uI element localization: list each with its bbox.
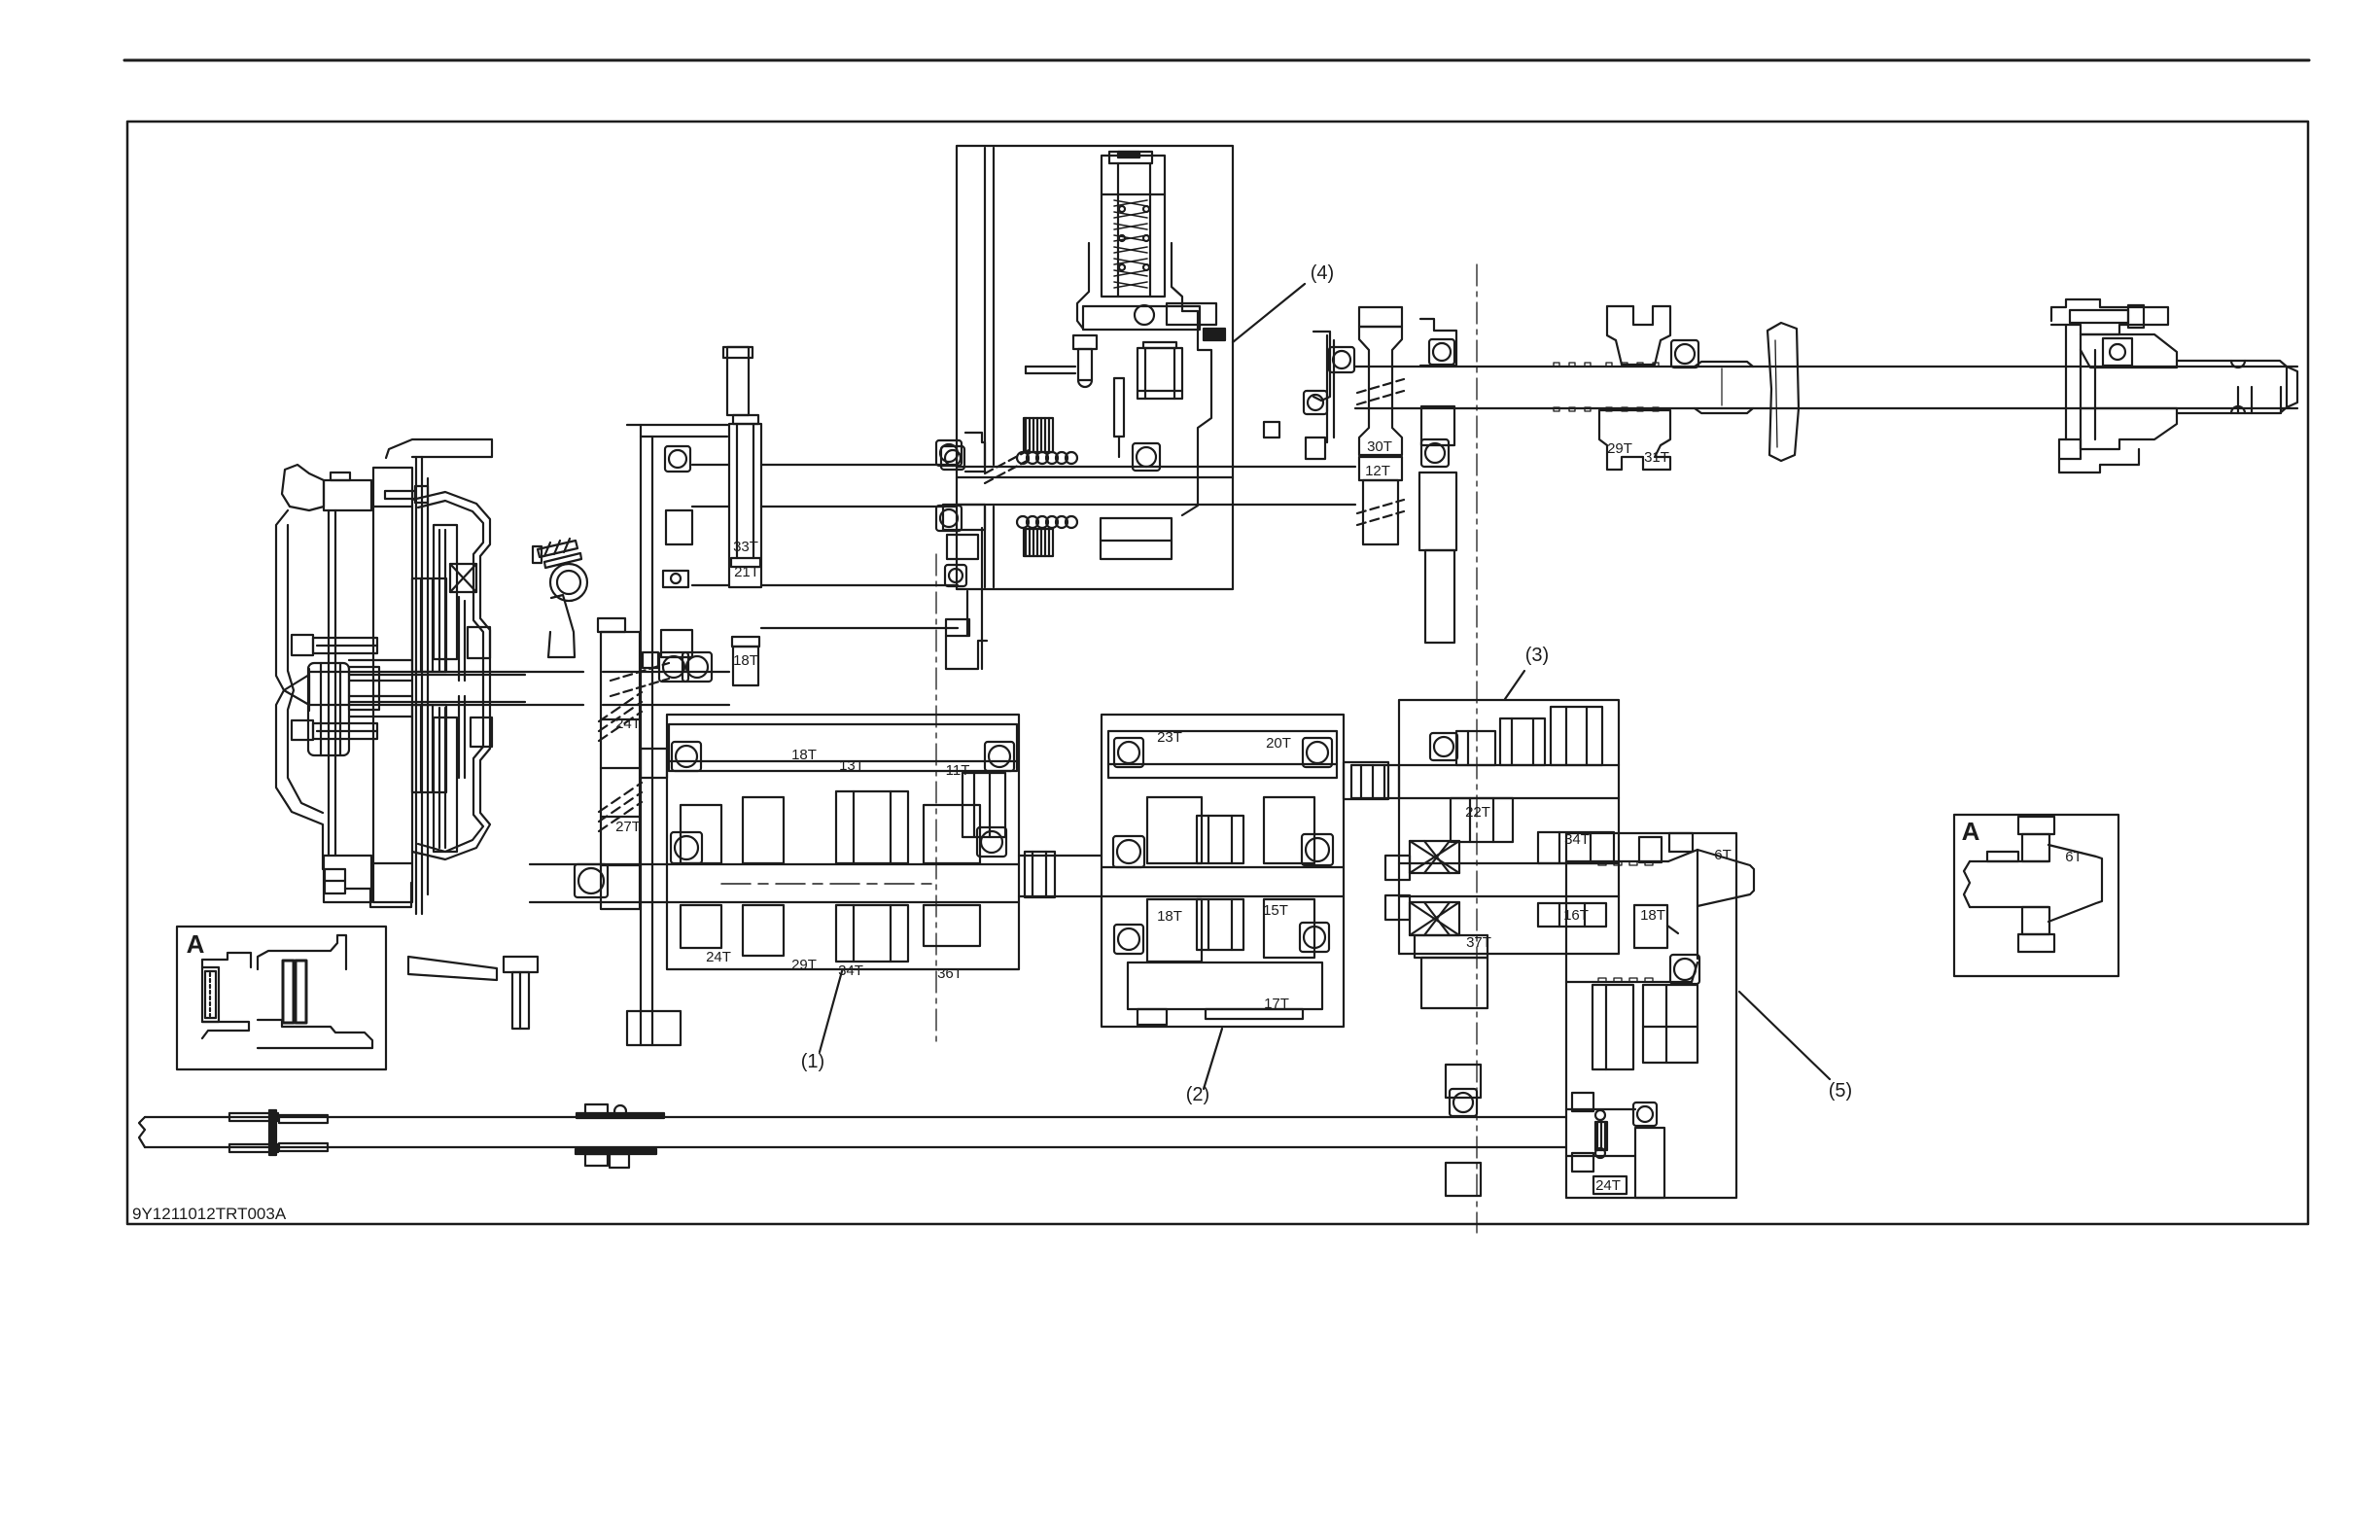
svg-text:31T: 31T: [1644, 449, 1669, 466]
shift plate left of gear: [1313, 332, 1334, 442]
bearing right of pair: [1671, 340, 1698, 367]
case top line: [627, 425, 729, 437]
box1 synchro upper: [836, 791, 908, 863]
Aleft right plate: [258, 935, 346, 969]
clutch cover: [412, 492, 490, 859]
bracket below shaft: [1419, 406, 1456, 643]
svg-text:18T: 18T: [733, 652, 758, 669]
svg-text:27T: 27T: [615, 819, 641, 835]
label (2) leader: [1204, 1029, 1222, 1089]
label (3) leader: [1505, 671, 1524, 699]
svg-text:6T: 6T: [1714, 847, 1732, 863]
centerline box1 shaft: [721, 883, 931, 885]
gear 11T pinion: [962, 773, 1005, 837]
box1 bearing mid-left: [671, 832, 702, 863]
spline dashes 12T lower: [1357, 500, 1404, 525]
Aright top blocks: [1987, 817, 2054, 861]
box1 gear l2: [743, 905, 784, 956]
gear 28T upper: [1607, 306, 1670, 365]
gear 34T body: [1538, 832, 1614, 863]
bell housing inner line: [288, 525, 323, 813]
top rule: [124, 59, 2309, 62]
box2 top gear body: [1108, 731, 1337, 778]
box3 synchro: [1500, 718, 1545, 765]
svg-text:12T: 12T: [1365, 463, 1390, 479]
svg-text:36T: 36T: [937, 965, 962, 982]
clutch friction disc: [416, 457, 428, 914]
end foot: [2059, 449, 2139, 472]
shaft sleeve upper: [1695, 362, 1753, 367]
label (5) leader: [1739, 992, 1830, 1079]
clutch hub lower: [412, 705, 446, 792]
box3 taper bearing upper: [1410, 841, 1459, 873]
diaphragm fingers: [439, 530, 465, 848]
svg-text:24T: 24T: [615, 716, 641, 732]
box3 bearing top-left: [1430, 733, 1457, 760]
gear 31T lower: [1599, 410, 1670, 470]
box2 bearing mid-left: [1113, 836, 1144, 867]
bottom shaft thick in box5: [1566, 1109, 1635, 1156]
box3 gear right: [1551, 707, 1602, 765]
svg-text:6T: 6T: [2065, 849, 2082, 865]
upper right shaft: [1233, 467, 1355, 505]
box1 coupling right: [1025, 852, 1055, 897]
input shaft band A: [692, 465, 957, 507]
svg-text:34T: 34T: [1564, 831, 1590, 848]
svg-text:18T: 18T: [791, 747, 817, 763]
svg-text:24T: 24T: [706, 949, 731, 965]
svg-text:11T: 11T: [946, 762, 970, 779]
Aleft bottom shaft: [258, 1020, 372, 1048]
label (1) leader: [820, 971, 842, 1052]
upper bearing left: [665, 446, 692, 544]
gear 16T: [1538, 903, 1606, 927]
svg-text:(1): (1): [801, 1051, 824, 1072]
bottom shaft hub: [229, 1110, 328, 1155]
box2 bearing top-left: [1114, 738, 1143, 767]
release fork arm: [548, 595, 575, 657]
input bearing row: [643, 652, 712, 682]
box4 pin: [1114, 378, 1124, 457]
box1 shaft: [667, 864, 1019, 902]
box3 top shaft: [1399, 765, 1619, 798]
box3 lower shaft: [1399, 863, 1619, 896]
label (4) leader: [1233, 284, 1305, 342]
case wall left: [627, 425, 681, 1045]
box2 bearing bot-right: [1300, 923, 1329, 952]
shaft sleeve lower: [1695, 408, 1753, 413]
svg-text:A: A: [187, 929, 205, 959]
box4 spring: [1114, 200, 1147, 288]
box4 solenoid: [1137, 342, 1182, 399]
box4 rollers lower: [1017, 516, 1077, 528]
ref box (4): [957, 146, 1233, 589]
ref box (1): [667, 715, 1019, 969]
box4 clutch pack upper: [1024, 418, 1053, 452]
box3 taper bearing lower: [1410, 902, 1459, 935]
box4 housing outline: [1182, 311, 1211, 515]
box2 bottom body: [1128, 962, 1322, 1009]
ref box (2): [1102, 715, 1344, 1027]
drain bolt: [504, 957, 538, 1029]
block left lower: [661, 630, 692, 657]
box2 gear l1: [1147, 899, 1202, 962]
svg-text:18T: 18T: [1640, 907, 1665, 924]
hanging bracket: [1420, 319, 1456, 366]
box2 feet: [1137, 1009, 1303, 1025]
gear 12T rim: [1359, 457, 1402, 544]
end bracket top: [2051, 299, 2168, 334]
box4 valve outer right: [1172, 243, 1182, 311]
hub cylinder: [349, 660, 412, 717]
box3 in coupling: [1351, 765, 1399, 798]
box4 lever arm: [1026, 367, 1075, 373]
box1 gear u2: [743, 797, 784, 863]
bevel pinion body: [1566, 850, 1754, 982]
bearing left of 30T: [1329, 347, 1354, 372]
box1 gear u1: [681, 805, 721, 863]
flywheel disc: [373, 468, 412, 902]
Aright cone: [2048, 845, 2102, 922]
gear 18T input: [732, 637, 759, 685]
svg-text:15T: 15T: [1263, 902, 1288, 919]
Aleft bottom bar: [202, 1022, 249, 1038]
box2 bearing bot-left: [1114, 925, 1143, 954]
svg-text:29T: 29T: [1607, 440, 1632, 457]
box1 bearing mid-right: [977, 827, 1006, 857]
box1 gear l1: [681, 905, 721, 948]
svg-text:A: A: [1962, 817, 1980, 846]
bearing mid right wall: [943, 505, 985, 586]
spline dashes input: [611, 663, 669, 696]
svg-text:29T: 29T: [791, 957, 817, 973]
svg-text:37T: 37T: [1466, 934, 1491, 951]
box1 gear u3: [924, 805, 980, 863]
svg-text:13T: 13T: [839, 757, 864, 774]
svg-text:34T: 34T: [838, 962, 863, 979]
gear 22T body: [1451, 798, 1513, 842]
case foot below box4: [946, 528, 987, 669]
box2 out coupling: [1344, 762, 1388, 799]
box1 out shaft: [1019, 856, 1102, 896]
box3 gear mid: [1456, 731, 1495, 765]
bottom shaft coupling: [576, 1104, 664, 1168]
pressure plate lower: [434, 717, 457, 852]
flywheel top block: [324, 472, 371, 510]
box4 shaft: [957, 467, 1233, 505]
centerline vertical x1519: [1476, 264, 1478, 1233]
end set screw: [2103, 338, 2132, 366]
Aleft ring pack: [202, 967, 219, 1022]
svg-text:30T: 30T: [1367, 438, 1392, 455]
box5 gear plates: [1592, 985, 1697, 1069]
gear 24T/27T stack: [598, 618, 640, 909]
ref box (3): [1399, 700, 1619, 954]
svg-text:(4): (4): [1311, 262, 1334, 284]
box5 lower bearing: [1633, 1102, 1657, 1126]
flywheel web: [329, 510, 335, 856]
release fork ring: [550, 564, 587, 601]
spline hatch 24T: [599, 692, 642, 741]
input shaft: [309, 672, 583, 705]
box4 valve body: [1102, 152, 1165, 297]
svg-text:9Y1211012TRT003A: 9Y1211012TRT003A: [132, 1205, 287, 1223]
box2 synchro upper: [1197, 816, 1243, 863]
spline hatch 27T: [599, 783, 642, 831]
bottom shaft hub gear: [1446, 1065, 1481, 1196]
box4 spline dashes: [985, 449, 1031, 483]
svg-text:16T: 16T: [1563, 907, 1589, 924]
release collar: [468, 627, 492, 747]
centerline vertical x658: [639, 671, 641, 815]
svg-text:18T: 18T: [1157, 908, 1182, 925]
PTO shaft: [1355, 367, 2297, 408]
box5 bearing: [1670, 955, 1699, 984]
svg-text:(3): (3): [1525, 645, 1549, 666]
engine plate top: [386, 439, 492, 458]
end housing verticals: [2066, 325, 2095, 459]
housing bottom block: [325, 869, 345, 893]
centerline vertical x963: [935, 554, 937, 1042]
case wall fragment: [1767, 323, 1799, 461]
box4 bolt left: [1073, 335, 1097, 387]
svg-text:21T: 21T: [734, 564, 759, 580]
box2 synchro lower: [1197, 899, 1243, 950]
fork pivot bolt: [533, 539, 581, 568]
box4 clutch pack lower: [1024, 529, 1053, 556]
small block left of gear: [1264, 422, 1279, 437]
box2 gear l2: [1264, 899, 1314, 958]
case wall ledge: [641, 749, 667, 778]
sleeve band B: [692, 585, 958, 628]
clutch hub: [412, 578, 446, 672]
gear 18T box5: [1634, 905, 1678, 948]
box4 bearing left: [936, 440, 962, 531]
box5 top blocks: [1639, 833, 1693, 862]
lower long bolt: [292, 720, 377, 740]
label 24T box5: [1593, 1176, 1627, 1194]
pinion spline ticks: [1598, 861, 1653, 982]
end bolt: [2070, 305, 2144, 328]
gear 30T/12T column: [1359, 307, 1402, 455]
box4 linkage: [1083, 303, 1225, 340]
svg-text:(5): (5): [1829, 1080, 1852, 1102]
box5 hub plates: [1572, 1093, 1593, 1172]
end housing: [2081, 334, 2177, 367]
box2 bearing mid-right: [1302, 834, 1333, 865]
spline ticks gear pair: [1554, 363, 1659, 411]
spring retainer: [450, 564, 476, 592]
box1 gear l3: [924, 905, 980, 946]
drain bracket: [408, 957, 497, 980]
ref box (5): [1566, 833, 1736, 1198]
box1 synchro lower: [836, 905, 908, 962]
shaft flange: [308, 663, 349, 755]
box1 top gear body: [669, 724, 1017, 771]
box4 rollers upper: [1017, 452, 1077, 464]
box3 left stub: [1385, 856, 1410, 920]
gear 33T/21T: [729, 415, 761, 587]
flywheel top bolt: [385, 486, 428, 503]
shaft joint line: [1721, 368, 1723, 405]
Aright shaft: [1964, 861, 2048, 907]
box5 lower block: [1635, 1128, 1664, 1198]
flywheel bottom block: [324, 856, 371, 902]
drawing frame: [127, 122, 2308, 1224]
bearing top right wall: [941, 433, 985, 472]
gear 37T plate: [1415, 935, 1487, 1008]
box4 valve outer: [1077, 243, 1089, 329]
bracket left of 30T: [1304, 391, 1327, 459]
upper long bolt: [292, 635, 377, 655]
box4 case wall inner: [985, 148, 994, 587]
housing bottom edge: [345, 883, 411, 907]
spline dashes 30T: [1357, 379, 1404, 404]
detail box A right: [1954, 815, 2118, 976]
small bearing left: [663, 571, 688, 587]
bearing hanging: [1429, 339, 1454, 365]
svg-text:22T: 22T: [1465, 804, 1490, 821]
box2 bearing top-right: [1303, 738, 1332, 767]
engine flange curl: [282, 465, 324, 510]
gear hub column: [723, 347, 752, 415]
svg-text:24T: 24T: [1595, 1177, 1621, 1194]
box4 housing right: [1101, 518, 1172, 559]
splined output shaft: [2177, 361, 2297, 413]
box5 roller pack: [1595, 1122, 1607, 1150]
countershaft stub: [530, 864, 667, 902]
end housing lower: [2059, 408, 2177, 459]
box1 bearing top-left: [672, 742, 701, 771]
box5 needle circles: [1595, 1110, 1605, 1158]
svg-text:20T: 20T: [1266, 735, 1291, 752]
svg-text:(2): (2): [1186, 1084, 1209, 1105]
box2 gear u1: [1147, 797, 1202, 863]
countershaft bearing: [575, 864, 608, 897]
Aleft flange: [202, 953, 251, 967]
svg-text:33T: 33T: [733, 539, 758, 555]
detail box A left: [177, 927, 386, 1069]
input shaft right: [603, 672, 729, 705]
box2 shaft: [1102, 867, 1344, 896]
bell housing outline: [276, 510, 323, 869]
box1 bearing top-right: [985, 742, 1014, 771]
bottom shaft: [139, 1117, 1566, 1147]
pilot cone: [284, 669, 309, 711]
Aleft double ring: [283, 961, 306, 1023]
pressure plate upper: [434, 525, 457, 659]
box4 bearing on shaft: [1133, 443, 1160, 471]
box2 gear u2: [1264, 797, 1314, 863]
Aright bottom blocks: [2018, 907, 2054, 952]
svg-text:23T: 23T: [1157, 729, 1182, 746]
